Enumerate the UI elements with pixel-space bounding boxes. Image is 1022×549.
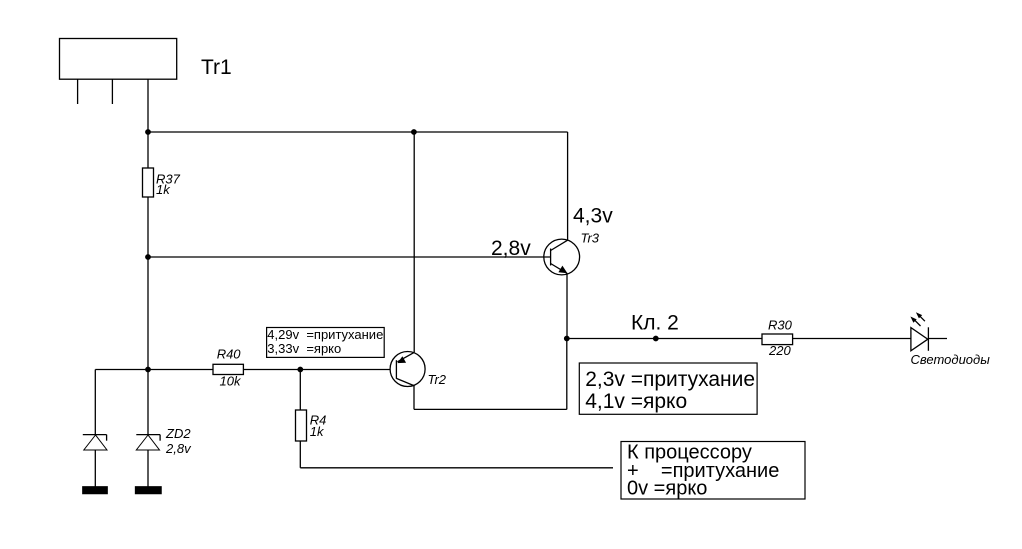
- resistor R40: [213, 364, 243, 374]
- Tr1 pin 3 wire: [147, 79, 149, 132]
- svg-text:2,8v: 2,8v: [491, 237, 531, 260]
- svg-text:0v =ярко: 0v =ярко: [627, 478, 707, 500]
- transistor Tr3: [544, 239, 580, 275]
- svg-text:10k: 10k: [220, 374, 242, 389]
- resistor R4: [296, 410, 307, 441]
- svg-text:2,8v: 2,8v: [165, 441, 192, 456]
- wire Tr3 collector: [567, 132, 569, 240]
- junction node R40 left: [145, 367, 151, 373]
- svg-text:ZD2: ZD2: [165, 426, 191, 441]
- junction node top R37: [145, 129, 151, 135]
- wire branch to Tr2 emitter: [413, 132, 415, 352]
- junction node R4 top: [297, 367, 303, 373]
- wire R40 to Tr2 base: [243, 369, 390, 371]
- junction node output: [564, 336, 570, 342]
- LED diode: [910, 312, 928, 351]
- svg-text:2,3v =притухание: 2,3v =притухание: [585, 368, 755, 391]
- wire to processor box: [300, 467, 613, 469]
- svg-text:4,29v =притухание: 4,29v =притухание: [267, 327, 383, 342]
- Tr1 pin 1: [77, 79, 79, 104]
- wire to LED: [793, 338, 911, 340]
- resistor R37: [143, 168, 154, 197]
- resistor R30: [762, 334, 793, 345]
- wire diode D1 branch: [94, 370, 96, 435]
- wire ZD2 to ground: [147, 450, 149, 487]
- transformer Tr1: [60, 39, 177, 80]
- wire left spine upper: [147, 132, 149, 168]
- svg-text:1k: 1k: [156, 182, 171, 197]
- wire base branch left: [95, 369, 213, 371]
- svg-text:R30: R30: [768, 317, 793, 332]
- wire output horizontal: [567, 338, 762, 340]
- note box base levels: [267, 328, 385, 358]
- svg-text:220: 220: [768, 343, 791, 358]
- wire R4 down: [299, 441, 301, 468]
- wire left spine mid: [147, 197, 149, 435]
- Tr1 pin 2: [111, 79, 113, 104]
- svg-text:Tr2: Tr2: [428, 372, 447, 387]
- note box output levels: [579, 363, 757, 414]
- svg-text:3,33v =ярко: 3,33v =ярко: [267, 341, 341, 356]
- svg-text:Кл. 2: Кл. 2: [631, 311, 679, 334]
- ground bar 2: [136, 487, 162, 494]
- wire LED out: [928, 338, 947, 340]
- svg-text:Tr1: Tr1: [201, 56, 232, 79]
- junction node Kl2: [653, 336, 659, 342]
- wire vertical to output node: [566, 339, 568, 410]
- diode D1: [83, 435, 107, 450]
- ground bar 1: [83, 487, 107, 494]
- svg-text:Светодиоды: Светодиоды: [911, 352, 991, 367]
- wire Tr3 emitter: [566, 274, 568, 339]
- note box processor: [621, 442, 805, 500]
- wire Tr3 base: [148, 256, 551, 258]
- wire bottom horizontal to node: [414, 408, 567, 410]
- zener ZD2: [136, 435, 160, 450]
- wire D1 to ground: [94, 450, 96, 487]
- svg-text:1k: 1k: [310, 424, 325, 439]
- junction node top Tr2 branch: [411, 129, 417, 135]
- transistor Tr2: [390, 352, 425, 387]
- junction node Tr3 base: [145, 254, 151, 260]
- svg-text:4,3v: 4,3v: [573, 205, 613, 228]
- wire Tr2 collector to output: [413, 385, 415, 410]
- wire R4 branch: [299, 370, 301, 411]
- svg-text:R40: R40: [217, 347, 242, 362]
- svg-text:4,1v =ярко: 4,1v =ярко: [585, 390, 687, 413]
- svg-text:Tr3: Tr3: [581, 231, 600, 246]
- wire top horizontal: [148, 131, 568, 133]
